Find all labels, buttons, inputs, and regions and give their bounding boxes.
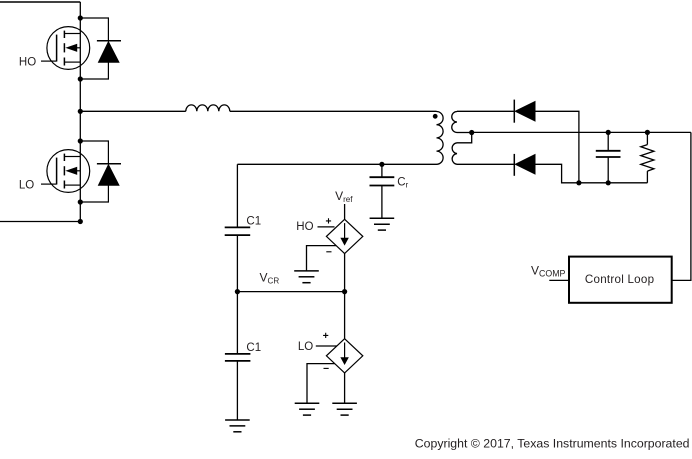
node drain Q1 junction bbox=[78, 15, 83, 20]
node drain Q2 junction bbox=[78, 138, 83, 143]
svg-text:C1: C1 bbox=[246, 342, 261, 354]
wire C1 upper to VCR node bbox=[236, 235, 238, 292]
svg-text:LO: LO bbox=[19, 179, 34, 191]
svg-text:C1: C1 bbox=[246, 216, 261, 228]
label plus LO source bbox=[323, 333, 328, 338]
transformer T1 primary winding bbox=[437, 112, 444, 165]
wire resistor top lead bbox=[646, 132, 648, 144]
wire center tap upper bbox=[457, 132, 472, 134]
wire Cr to ground bbox=[381, 186, 383, 219]
wire D1 anode to return bbox=[535, 111, 579, 183]
wire Vref lead bbox=[344, 204, 346, 219]
node bottom rail junction bbox=[78, 219, 83, 224]
wire input top rail bbox=[0, 1, 80, 3]
label plus HO source bbox=[326, 218, 331, 223]
wire secondary top to rectifier bbox=[457, 110, 514, 112]
node VCR junction right bbox=[342, 289, 347, 294]
dependent source LO controlled bbox=[326, 339, 362, 373]
ground HO source bbox=[294, 271, 319, 283]
capacitor Cr resonant bbox=[370, 177, 395, 185]
node return D1 junction bbox=[576, 180, 581, 185]
transformer polarity dot bbox=[433, 114, 438, 119]
svg-text:Copyright © 2017, Texas Instru: Copyright © 2017, Texas Instruments Inco… bbox=[415, 436, 690, 450]
transistor Q1 HO MOSFET bbox=[41, 27, 90, 70]
capacitor output filter bbox=[596, 151, 621, 157]
svg-text:HO: HO bbox=[19, 56, 36, 68]
diode body diode of Q1 bbox=[80, 18, 121, 79]
label minus HO source bbox=[326, 251, 331, 253]
node switch node SW bbox=[78, 109, 83, 114]
resistor load bbox=[641, 145, 654, 172]
node output resistor top bbox=[645, 130, 650, 135]
node VCR junction left bbox=[235, 289, 240, 294]
wire LO source output to ground bbox=[344, 373, 346, 403]
wire VCR node rail bbox=[237, 291, 344, 293]
node source Q2 junction bbox=[78, 199, 83, 204]
ground C1 lower bbox=[225, 420, 250, 432]
label minus LO source bbox=[324, 367, 329, 369]
transistor Q2 LO MOSFET bbox=[41, 150, 90, 193]
wire secondary bottom to rectifier bbox=[457, 163, 514, 165]
inductor Lr series resonant bbox=[186, 105, 230, 111]
wire C1 upper branch drop bbox=[236, 164, 238, 227]
diode D2 bottom rectifier bbox=[514, 154, 535, 176]
node Cr junction bbox=[379, 162, 384, 167]
wire LO label lead bbox=[316, 345, 337, 347]
diode D1 top rectifier bbox=[514, 100, 535, 123]
wire C1 lower branch drop bbox=[236, 292, 238, 354]
ground LO source output bbox=[332, 403, 357, 415]
wire VCR node to LO source bbox=[344, 292, 346, 339]
capacitor C1 upper bbox=[225, 227, 251, 235]
ground Cr bbox=[370, 218, 395, 230]
wire C1 lower to ground bbox=[236, 361, 238, 420]
node output cap top bbox=[606, 130, 611, 135]
wire center tap lower step bbox=[457, 133, 472, 143]
box control loop bbox=[569, 257, 672, 303]
wire LO source minus to ground bbox=[307, 364, 335, 404]
wire output cap top lead bbox=[607, 132, 609, 150]
wire inductor to transformer primary bbox=[230, 110, 437, 112]
wire half-bridge vertical rail bbox=[79, 2, 81, 222]
wire D2 anode to return bbox=[535, 164, 647, 183]
wire HO label lead bbox=[318, 226, 335, 228]
ground LO source minus bbox=[295, 403, 320, 415]
svg-text:Control Loop: Control Loop bbox=[585, 273, 654, 286]
wire HO source output to VCR node bbox=[344, 254, 346, 292]
wire output rail bbox=[472, 131, 691, 133]
wire input bottom rail bbox=[0, 221, 80, 223]
node center tap bbox=[469, 130, 474, 135]
transformer T1 secondary lower winding bbox=[452, 143, 457, 165]
dependent source HO controlled bbox=[326, 219, 362, 253]
wire VCOMP input bbox=[549, 279, 569, 281]
wire primary bottom return bbox=[237, 163, 436, 165]
diode body diode of Q2 bbox=[80, 141, 121, 202]
capacitor C1 lower bbox=[225, 354, 251, 361]
wire HO source minus to ground bbox=[307, 246, 337, 271]
node return cap junction bbox=[606, 180, 611, 185]
wire switch node to inductor bbox=[80, 110, 186, 112]
node source Q1 junction bbox=[78, 76, 83, 81]
wire output cap bottom lead bbox=[607, 157, 609, 183]
svg-text:LO: LO bbox=[298, 341, 313, 353]
svg-text:HO: HO bbox=[296, 221, 313, 233]
wire Cr drop bbox=[381, 164, 383, 177]
wire resistor bottom lead bbox=[646, 171, 648, 183]
transformer T1 secondary upper winding bbox=[452, 112, 457, 133]
wire feedback right edge drop bbox=[672, 132, 691, 280]
